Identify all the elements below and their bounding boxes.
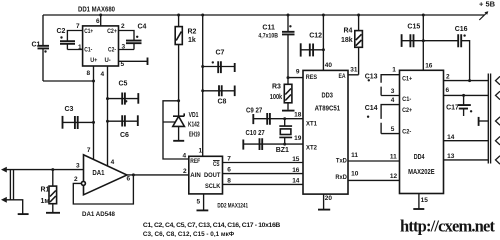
svg-text:C2-: C2- [108, 47, 116, 54]
svg-text:3: 3 [122, 44, 126, 51]
svg-text:4,7x10B: 4,7x10B [258, 33, 278, 40]
svg-text:C9 27: C9 27 [246, 107, 262, 114]
svg-text:14: 14 [292, 178, 300, 185]
svg-text:6: 6 [96, 18, 100, 25]
svg-text:XT2: XT2 [306, 145, 317, 152]
svg-text:4: 4 [101, 71, 105, 78]
svg-text:13: 13 [447, 153, 455, 160]
svg-text:C2: C2 [57, 28, 66, 35]
svg-text:TxD: TxD [336, 158, 347, 165]
svg-text:C1+: C1+ [84, 28, 93, 35]
svg-text:AIN: AIN [190, 172, 201, 179]
svg-text:12: 12 [390, 173, 398, 180]
svg-text:9: 9 [296, 68, 300, 75]
svg-text:8: 8 [227, 177, 231, 184]
svg-text:5: 5 [391, 126, 395, 133]
svg-text:C2-: C2- [402, 129, 411, 136]
svg-text:EH19: EH19 [189, 131, 200, 138]
svg-text:2: 2 [74, 176, 78, 183]
svg-text:C3, C6, C8, C12, C15 - 0,1 мк: C3, C6, C8, C12, C15 - 0,1 мкФ [143, 231, 234, 237]
svg-text:C4: C4 [138, 24, 147, 31]
svg-text:C7: C7 [216, 50, 225, 57]
svg-text:5: 5 [121, 61, 125, 68]
svg-text:7: 7 [227, 155, 231, 162]
svg-text:U+: U+ [90, 57, 97, 64]
svg-text:7: 7 [76, 23, 80, 30]
svg-text:1: 1 [78, 44, 82, 51]
svg-text:11: 11 [351, 152, 358, 159]
svg-text:C17: C17 [446, 104, 459, 111]
svg-text:11: 11 [390, 154, 397, 161]
svg-text:CS: CS [213, 161, 220, 168]
svg-text:C12: C12 [309, 33, 322, 40]
svg-text:6: 6 [127, 175, 131, 182]
svg-text:3: 3 [391, 88, 395, 95]
svg-text:DD1 MAX680: DD1 MAX680 [78, 7, 115, 14]
svg-text:6: 6 [446, 87, 450, 94]
svg-text:18k: 18k [341, 37, 353, 44]
svg-text:1: 1 [392, 67, 396, 74]
svg-text:R4: R4 [344, 27, 353, 34]
svg-text:1k: 1k [188, 37, 196, 44]
svg-text:4: 4 [111, 159, 115, 166]
svg-text:15: 15 [421, 197, 429, 204]
svg-text:19: 19 [294, 135, 302, 142]
svg-text:K142: K142 [188, 122, 200, 129]
svg-text:XT1: XT1 [306, 121, 317, 128]
svg-text:2: 2 [121, 23, 125, 30]
svg-text:2: 2 [446, 74, 450, 81]
svg-text:1: 1 [199, 148, 203, 155]
svg-text:10: 10 [351, 171, 359, 178]
svg-text:2: 2 [183, 168, 187, 175]
svg-text:3: 3 [76, 162, 80, 169]
svg-text:18: 18 [294, 112, 302, 119]
svg-text:http://cxem.net: http://cxem.net [400, 217, 496, 236]
svg-text:16: 16 [292, 167, 300, 174]
svg-text:16: 16 [425, 63, 433, 70]
svg-text:4: 4 [391, 97, 395, 104]
svg-text:REF: REF [190, 158, 200, 165]
svg-text:31: 31 [350, 67, 358, 74]
svg-text:R1: R1 [41, 186, 50, 193]
svg-text:C16: C16 [455, 26, 468, 33]
svg-text:BZ1: BZ1 [276, 147, 289, 154]
svg-text:C15: C15 [407, 23, 420, 30]
svg-text:15: 15 [292, 156, 300, 163]
svg-text:C1-: C1- [402, 96, 411, 103]
svg-text:R3: R3 [272, 84, 281, 91]
svg-text:C11: C11 [262, 25, 275, 32]
svg-text:100k: 100k [270, 94, 283, 101]
svg-text:C8: C8 [218, 99, 227, 106]
svg-text:VD1: VD1 [189, 112, 199, 119]
svg-text:DD3: DD3 [322, 92, 333, 99]
svg-text:40: 40 [325, 62, 333, 69]
svg-text:DOUT: DOUT [204, 172, 220, 179]
svg-text:C1-: C1- [84, 47, 92, 54]
svg-text:C14: C14 [365, 105, 378, 112]
svg-text:EA: EA [339, 73, 346, 80]
svg-text:5: 5 [197, 199, 201, 206]
svg-text:U-: U- [105, 57, 111, 64]
svg-text:4: 4 [183, 152, 187, 159]
svg-text:14: 14 [447, 134, 455, 141]
svg-text:6: 6 [227, 166, 231, 173]
svg-text:C3: C3 [65, 106, 74, 113]
svg-text:+ 5B: + 5B [479, 0, 496, 9]
svg-text:RES: RES [306, 74, 318, 81]
svg-text:DD4: DD4 [414, 154, 425, 161]
svg-text:8: 8 [87, 70, 91, 77]
svg-text:R2: R2 [188, 29, 197, 36]
svg-text:7: 7 [87, 147, 91, 154]
svg-text:DA1 AD548: DA1 AD548 [82, 211, 115, 218]
svg-text:C1, C2, C4, C5, C7, C13, C14,: C1, C2, C4, C5, C7, C13, C14, C16, C17 -… [143, 222, 280, 229]
svg-text:C5: C5 [119, 81, 128, 88]
svg-text:20: 20 [325, 195, 333, 202]
svg-text:RxD: RxD [335, 174, 347, 181]
svg-text:AT89C51: AT89C51 [315, 106, 341, 113]
svg-text:C2+: C2+ [107, 28, 117, 35]
svg-text:MAX202E: MAX202E [408, 169, 435, 176]
svg-text:C1+: C1+ [402, 76, 412, 83]
svg-text:C13: C13 [365, 74, 378, 81]
svg-text:DA1: DA1 [92, 170, 104, 177]
svg-text:1м: 1м [41, 198, 50, 205]
svg-text:C2+: C2+ [402, 107, 412, 114]
svg-text:SCLK: SCLK [205, 183, 221, 190]
svg-text:C6: C6 [120, 132, 129, 139]
svg-text:C10 27: C10 27 [246, 130, 265, 137]
svg-text:DD2 MAX1241: DD2 MAX1241 [217, 203, 248, 209]
svg-text:C1: C1 [32, 41, 41, 48]
